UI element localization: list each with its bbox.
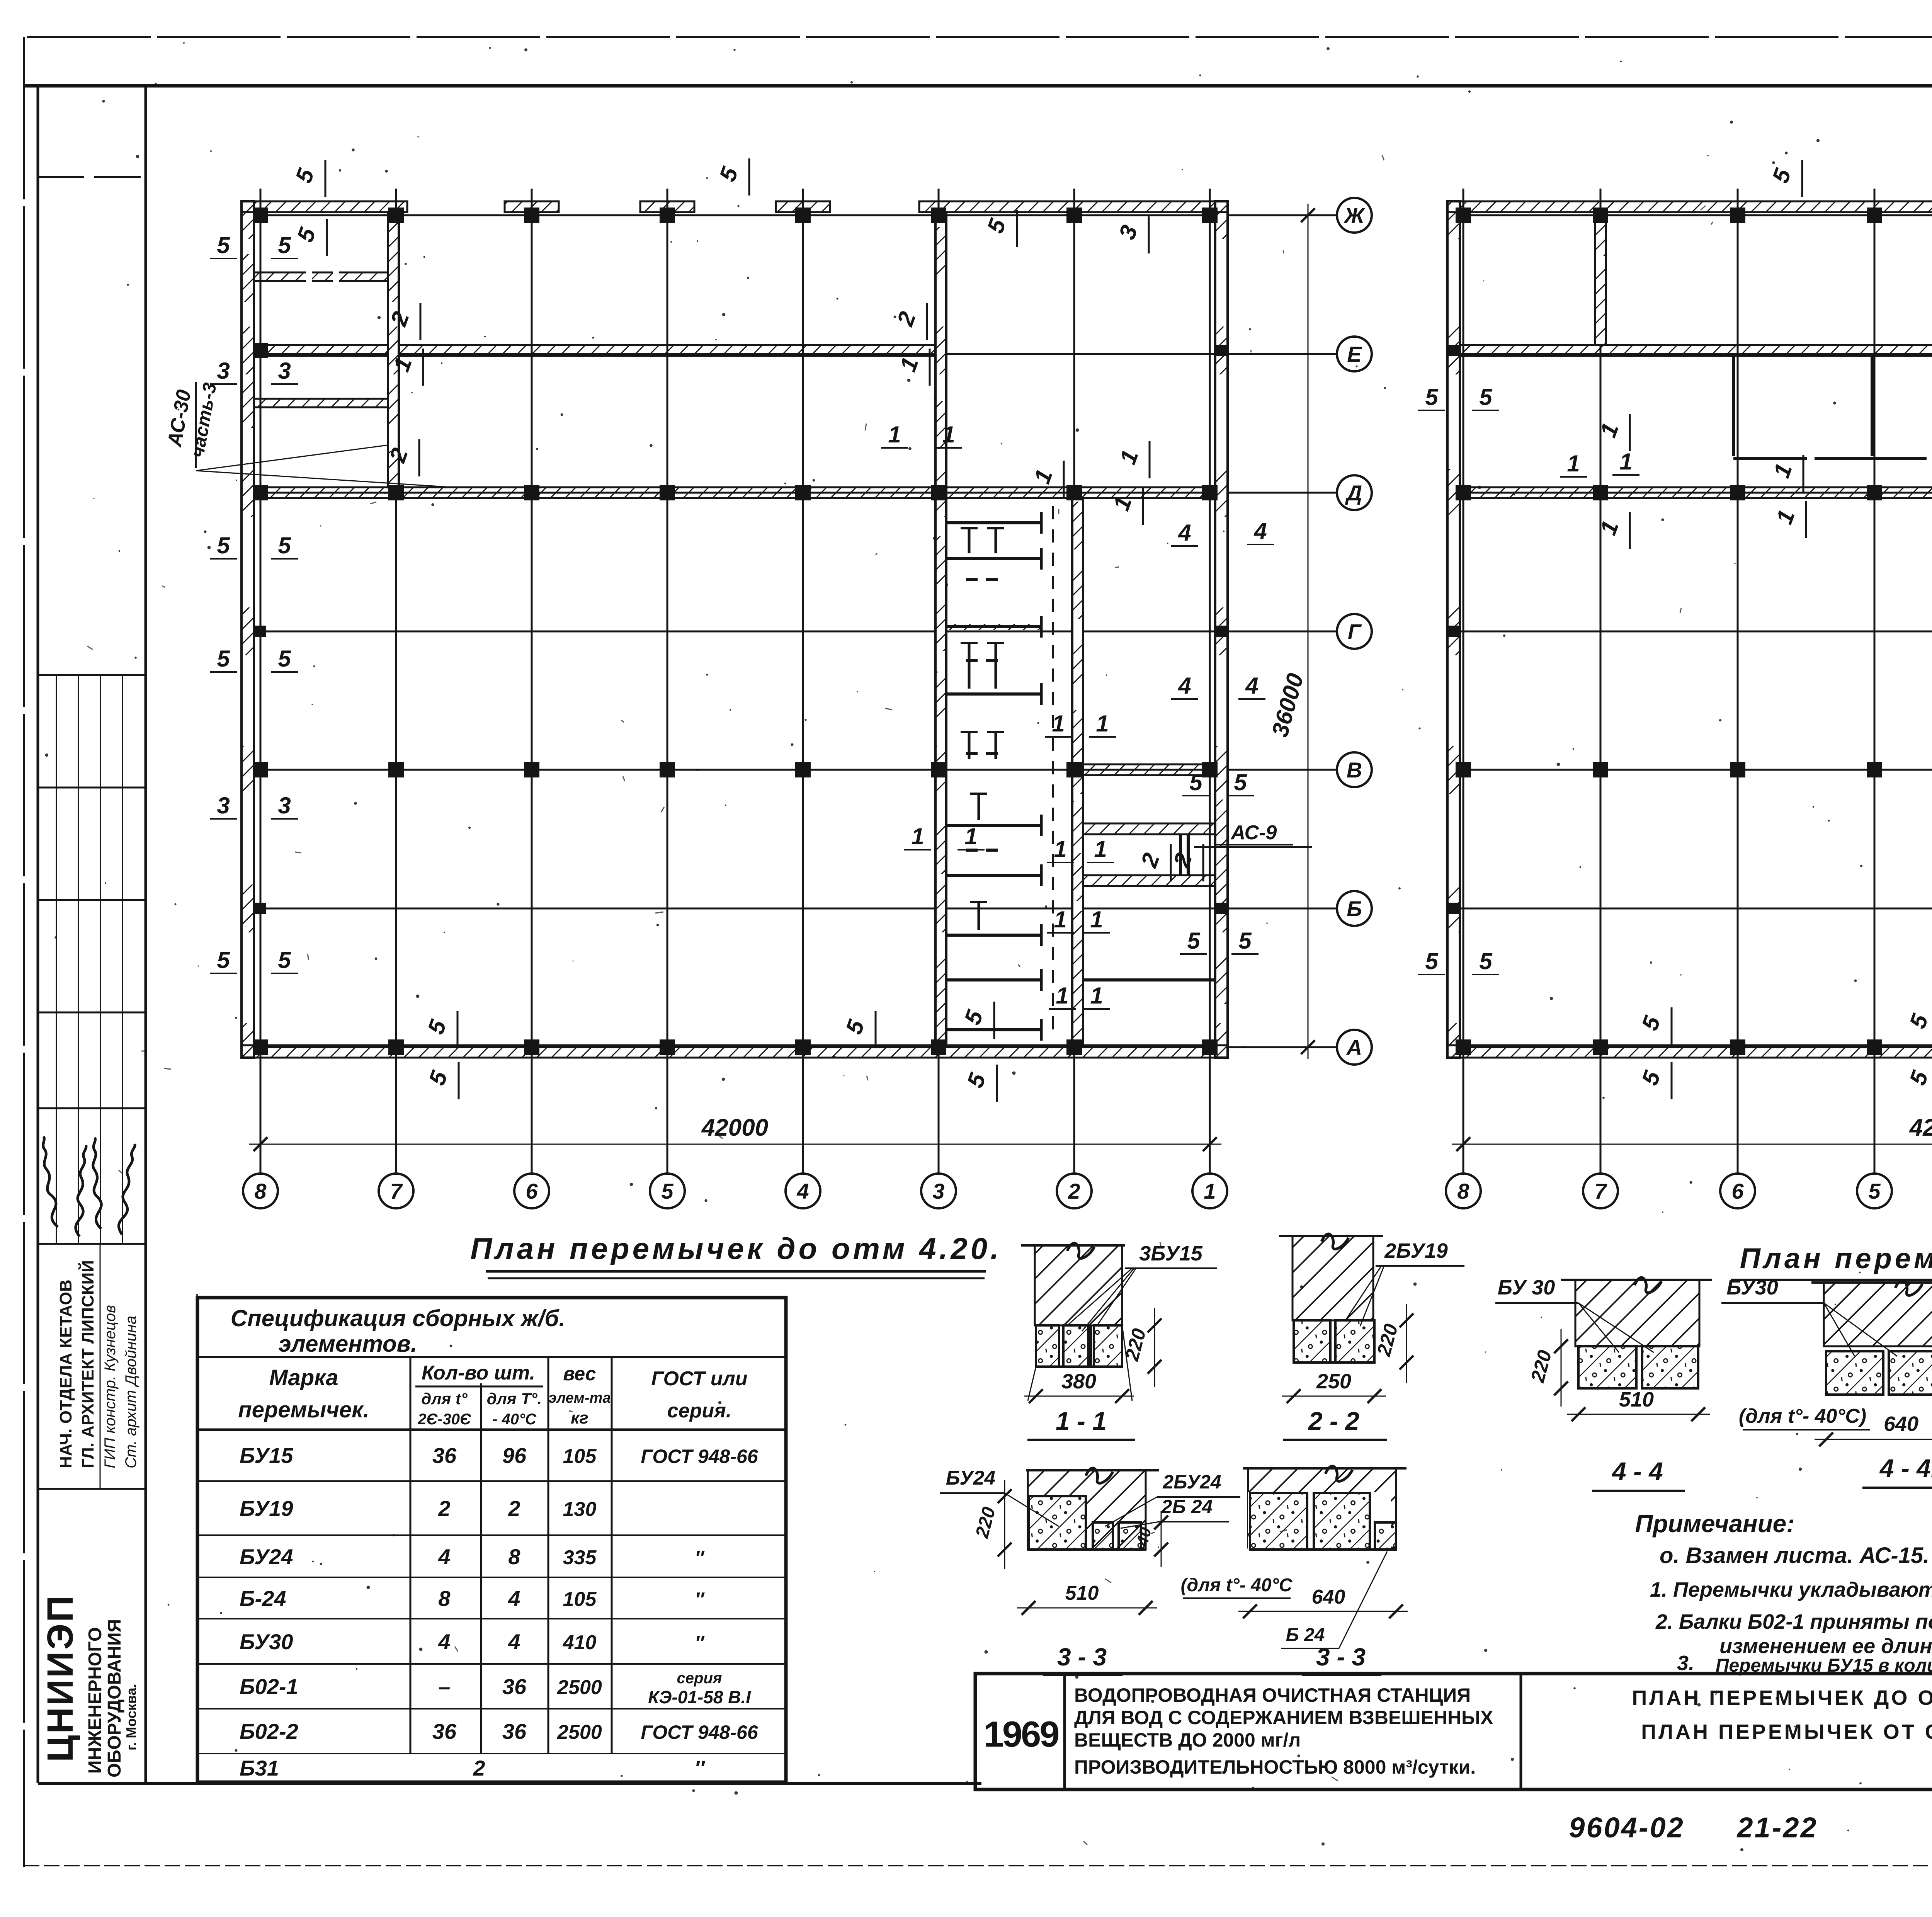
svg-text:4: 4 bbox=[508, 1630, 520, 1654]
plan 2 left wall bbox=[1447, 201, 1460, 1058]
svg-text:4: 4 bbox=[1178, 673, 1191, 699]
svg-text:ПЛАН ПЕРЕМЫЧЕК ДО ОТМ. 4.20: ПЛАН ПЕРЕМЫЧЕК ДО ОТМ. 4.200 . bbox=[1632, 1686, 1932, 1709]
plan 2 wall on axis D bbox=[1460, 487, 1932, 498]
svg-text:96: 96 bbox=[502, 1443, 527, 1468]
svg-text:БУ30: БУ30 bbox=[1726, 1276, 1778, 1299]
svg-text:6: 6 bbox=[1731, 1179, 1744, 1203]
svg-text:2 - 2: 2 - 2 bbox=[1308, 1407, 1359, 1435]
plan 2 dimension 42000 bbox=[1452, 1144, 1932, 1145]
svg-text:3: 3 bbox=[278, 793, 291, 818]
svg-text:2Є-30Є: 2Є-30Є bbox=[417, 1411, 471, 1428]
plan 1 wall on axis 3 bbox=[935, 212, 946, 1045]
plan 1 right block corridor wall 2 bbox=[1083, 875, 1215, 886]
svg-text:″: ″ bbox=[695, 1589, 705, 1610]
svg-text:2: 2 bbox=[1068, 1179, 1080, 1203]
svg-text:42000: 42000 bbox=[1909, 1114, 1932, 1141]
svg-text:ГОСТ 948-66: ГОСТ 948-66 bbox=[641, 1721, 758, 1743]
plan 1 wall columns rows Е Г Б bbox=[253, 343, 1227, 914]
svg-text:ОБОРУДОВАНИЯ: ОБОРУДОВАНИЯ bbox=[104, 1619, 125, 1778]
svg-text:План перемычек до отм 4.20.: План перемычек до отм 4.20. bbox=[470, 1232, 1002, 1266]
svg-text:5: 5 bbox=[1479, 948, 1493, 974]
plan 1 bottom wall bbox=[241, 1045, 1228, 1058]
svg-text:для t°: для t° bbox=[421, 1390, 468, 1408]
svg-text:4: 4 bbox=[1253, 518, 1267, 544]
svg-text:36: 36 bbox=[502, 1719, 527, 1744]
stamp cell line top bbox=[38, 176, 146, 178]
svg-text:для Т°.: для Т°. bbox=[487, 1390, 542, 1408]
svg-text:335: 335 bbox=[563, 1546, 597, 1569]
svg-text:5: 5 bbox=[278, 532, 291, 558]
stamp column right border bbox=[145, 86, 147, 1783]
svg-text:36: 36 bbox=[432, 1719, 457, 1744]
svg-text:640: 640 bbox=[1884, 1412, 1918, 1436]
svg-text:4: 4 bbox=[508, 1586, 520, 1611]
svg-text:ПЛАН ПЕРЕМЫЧЕК ОТ ОТМ. 4.2: ПЛАН ПЕРЕМЫЧЕК ОТ ОТМ. 4.200 bbox=[1641, 1720, 1932, 1744]
svg-text:510: 510 bbox=[1619, 1388, 1654, 1411]
spec table rows bbox=[197, 1480, 786, 1482]
svg-text:вес: вес bbox=[563, 1363, 596, 1385]
svg-text:БУ19: БУ19 bbox=[240, 1496, 293, 1521]
plan 1 top wall stub axis 6 bbox=[505, 201, 559, 212]
svg-text:1: 1 bbox=[1056, 983, 1068, 1009]
svg-text:1 - 1: 1 - 1 bbox=[1056, 1407, 1107, 1435]
svg-text:2. Балки Б02-1 приняты п: 2. Балки Б02-1 приняты по серии КЭ-01-58… bbox=[1655, 1610, 1932, 1633]
plan 1 dimension 36000 bbox=[1308, 204, 1309, 1059]
svg-text:4: 4 bbox=[796, 1179, 809, 1203]
section 2-2 bbox=[1279, 1235, 1383, 1237]
plan 1 top wall right segment bbox=[919, 201, 1228, 212]
plan 1 left wall bbox=[241, 201, 254, 1058]
section 1-1 bbox=[1021, 1244, 1125, 1247]
svg-text:НАЧ. ОТДЕЛА КЕТАОВ: НАЧ. ОТДЕЛА КЕТАОВ bbox=[56, 1279, 75, 1468]
section 3-3 second dim 640 bbox=[1238, 1611, 1408, 1612]
svg-text:5: 5 bbox=[1868, 1179, 1881, 1203]
plan 1 right block cell partitions bbox=[1179, 834, 1182, 875]
svg-text:Б 24: Б 24 bbox=[1286, 1625, 1325, 1645]
svg-text:5: 5 bbox=[1187, 928, 1201, 954]
sheet bottom edge bbox=[24, 1865, 1932, 1866]
svg-text:Б-24: Б-24 bbox=[240, 1586, 286, 1611]
svg-text:Б31: Б31 bbox=[240, 1756, 279, 1780]
plan 1 top wall stub axis 5 bbox=[640, 201, 694, 212]
svg-text:Примечание:: Примечание: bbox=[1635, 1510, 1794, 1538]
svg-text:Б02-2: Б02-2 bbox=[240, 1719, 298, 1744]
plan 1 wall on axis E bbox=[254, 345, 941, 356]
svg-text:105: 105 bbox=[563, 1588, 597, 1611]
svg-text:1: 1 bbox=[1204, 1179, 1216, 1203]
plan 2 axis circles bottom 8-1 bbox=[1446, 1174, 1481, 1208]
svg-text:серия.: серия. bbox=[667, 1400, 731, 1422]
svg-text:Кол-во шт.: Кол-во шт. bbox=[422, 1362, 535, 1384]
plan 1 stair shaft partitions between axes 3 and 2 bbox=[947, 512, 1041, 1041]
svg-text:2Б 24: 2Б 24 bbox=[1161, 1496, 1213, 1517]
svg-text:″: ″ bbox=[694, 1756, 706, 1780]
svg-text:1: 1 bbox=[1054, 907, 1066, 932]
plan 1 columns row Д bbox=[253, 485, 1218, 500]
plan 2 grid horizontal axis lines bbox=[1460, 215, 1932, 1047]
svg-text:510: 510 bbox=[1065, 1582, 1099, 1604]
plan 1 rotated section marks bbox=[291, 158, 1203, 1102]
section 4-4 second bbox=[1811, 1281, 1932, 1284]
svg-text:5: 5 bbox=[1425, 948, 1439, 974]
plan 1 columns row В bbox=[253, 762, 1218, 777]
svg-text:4: 4 bbox=[438, 1630, 450, 1654]
plan 1 right block wall on axis В bbox=[1083, 764, 1215, 775]
frame bottom heavy line bbox=[38, 1782, 981, 1785]
inner frame top line bbox=[24, 84, 1932, 88]
svg-text:2: 2 bbox=[438, 1496, 450, 1521]
svg-text:42000: 42000 bbox=[701, 1114, 768, 1141]
section 3-3 second bbox=[1243, 1467, 1406, 1470]
svg-text:1: 1 bbox=[1052, 711, 1065, 737]
svg-text:5: 5 bbox=[661, 1179, 673, 1203]
svg-text:5: 5 bbox=[217, 532, 230, 558]
svg-text:1: 1 bbox=[1094, 836, 1107, 862]
svg-text:кг: кг bbox=[571, 1408, 588, 1427]
section 1-1 dim 220 bbox=[1154, 1308, 1155, 1387]
plan 1 wall on axis 2 bbox=[1072, 498, 1083, 1045]
svg-text:ГЛ. АРХИТЕКТ ЛИПСКИЙ: ГЛ. АРХИТЕКТ ЛИПСКИЙ bbox=[78, 1260, 97, 1468]
plan 1 right block thin partition bbox=[1083, 978, 1215, 981]
svg-text:2: 2 bbox=[508, 1496, 520, 1521]
svg-text:АС-9: АС-9 bbox=[1230, 822, 1277, 844]
svg-text:1: 1 bbox=[1090, 983, 1103, 1009]
svg-text:1: 1 bbox=[911, 823, 924, 849]
sheet left edge bbox=[23, 37, 25, 1867]
svg-text:5: 5 bbox=[278, 232, 291, 258]
plan 1 top wall stub axis 4 bbox=[776, 201, 830, 212]
plan 1 top wall left block segment bbox=[241, 201, 407, 212]
svg-text:1: 1 bbox=[1619, 449, 1632, 475]
plan 2 wall columns rows Е Г Б bbox=[1448, 345, 1932, 914]
svg-text:″: ″ bbox=[695, 1632, 705, 1653]
svg-text:Б: Б bbox=[1347, 896, 1362, 921]
plan 2 top wall bbox=[1447, 201, 1932, 212]
section 4-4 second dim 640 bbox=[1815, 1439, 1932, 1440]
svg-text:4: 4 bbox=[1245, 673, 1258, 699]
svg-text:Спецификация сборных ж/б.: Спецификация сборных ж/б. bbox=[231, 1305, 565, 1331]
plan 2 columns row Д bbox=[1456, 485, 1932, 500]
svg-text:1: 1 bbox=[964, 823, 977, 849]
svg-text:серия: серия bbox=[677, 1670, 722, 1687]
svg-text:1: 1 bbox=[1054, 836, 1066, 862]
svg-text:Б02-1: Б02-1 bbox=[240, 1674, 298, 1699]
plan 1 top-left block partition 1 bbox=[254, 272, 388, 281]
svg-text:36: 36 bbox=[502, 1674, 527, 1699]
plan 1 dimension 42000 bbox=[249, 1144, 1221, 1145]
svg-text:ЦНИИЭП: ЦНИИЭП bbox=[40, 1594, 81, 1762]
plan 2 columns row Ж bbox=[1456, 208, 1932, 223]
stamp column left border bbox=[37, 86, 39, 1783]
svg-text:о. Взамен листа. АС-15.: о. Взамен листа. АС-15. bbox=[1660, 1543, 1929, 1568]
svg-text:ИНЖЕНЕРНОГО: ИНЖЕНЕРНОГО bbox=[85, 1627, 105, 1774]
svg-text:105: 105 bbox=[563, 1445, 597, 1468]
section 1-1 dim 380 bbox=[1028, 1367, 1036, 1401]
stamp revision table bbox=[38, 675, 146, 1244]
section 3-3 first bbox=[1026, 1469, 1159, 1471]
plan 2 wall on axis 7 top bbox=[1595, 212, 1606, 345]
plan 2 wall on axis E bbox=[1460, 345, 1932, 356]
svg-text:380: 380 bbox=[1061, 1370, 1096, 1393]
svg-text:3: 3 bbox=[278, 358, 291, 384]
svg-text:1: 1 bbox=[942, 422, 955, 447]
svg-text:2500: 2500 bbox=[557, 1676, 602, 1699]
svg-text:1. Перемычки укладываются на: 1. Перемычки укладываются на свежеуложен… bbox=[1650, 1578, 1932, 1601]
svg-text:4 - 4.: 4 - 4. bbox=[1879, 1454, 1932, 1482]
svg-text:7: 7 bbox=[1594, 1179, 1607, 1203]
svg-text:5: 5 bbox=[1238, 928, 1252, 954]
plan 1 shaft vertical stubs bbox=[961, 528, 1004, 930]
stamp signatures bbox=[36, 1136, 66, 1227]
plan 1 columns row А bbox=[253, 1039, 1218, 1055]
section 4-4 first bbox=[1561, 1279, 1712, 1281]
svg-text:(для t°- 40°С: (для t°- 40°С bbox=[1181, 1575, 1293, 1596]
svg-text:5: 5 bbox=[1425, 384, 1439, 410]
svg-text:КЭ-01-58 В.I: КЭ-01-58 В.I bbox=[648, 1687, 751, 1707]
svg-text:2: 2 bbox=[473, 1756, 485, 1780]
plan 1 grid vertical axis lines bbox=[260, 189, 1210, 1172]
plan 2 labels bbox=[1418, 246, 1932, 975]
svg-text:2БУ19: 2БУ19 bbox=[1384, 1239, 1448, 1262]
svg-text:5: 5 bbox=[278, 947, 291, 973]
specification table frame bbox=[197, 1298, 786, 1782]
svg-text:5: 5 bbox=[1479, 384, 1493, 410]
svg-text:Г: Г bbox=[1348, 619, 1362, 644]
svg-text:В: В bbox=[1347, 758, 1362, 782]
svg-text:БУ24: БУ24 bbox=[946, 1467, 996, 1489]
svg-text:Марка: Марка bbox=[269, 1365, 338, 1390]
plan 2 columns row В bbox=[1456, 762, 1932, 777]
svg-text:640: 640 bbox=[1312, 1586, 1345, 1608]
plan 1 axis circles bottom 8-1 bbox=[243, 1174, 278, 1208]
svg-text:Е: Е bbox=[1347, 342, 1362, 366]
svg-text:3 - 3: 3 - 3 bbox=[1057, 1643, 1107, 1671]
svg-text:ГОСТ или: ГОСТ или bbox=[651, 1368, 747, 1390]
title block dividers bbox=[1063, 1674, 1066, 1789]
svg-text:ПРОИЗВОДИТЕЛЬНОСТЬЮ 8000 м³/су: ПРОИЗВОДИТЕЛЬНОСТЬЮ 8000 м³/сутки. bbox=[1074, 1756, 1476, 1778]
svg-text:Д: Д bbox=[1345, 481, 1362, 505]
svg-text:7: 7 bbox=[390, 1179, 403, 1203]
svg-text:8: 8 bbox=[254, 1179, 267, 1203]
svg-text:5: 5 bbox=[1189, 769, 1203, 795]
svg-text:БУ24: БУ24 bbox=[240, 1544, 293, 1569]
plan 2 columns row А bbox=[1456, 1039, 1932, 1055]
svg-text:1: 1 bbox=[1090, 907, 1103, 932]
svg-text:5: 5 bbox=[217, 232, 230, 258]
section 3-3 first dim 510 bbox=[1017, 1607, 1157, 1609]
section 3-3 first dim 40 bbox=[1161, 1511, 1162, 1567]
svg-text:8: 8 bbox=[438, 1586, 451, 1611]
svg-text:130: 130 bbox=[563, 1498, 597, 1521]
plan 1 labels bbox=[210, 232, 1274, 1009]
plan 1 right block corridor wall 1 bbox=[1083, 823, 1215, 834]
section 3-3 first dim 220 bbox=[1004, 1480, 1005, 1569]
svg-text:5: 5 bbox=[1234, 769, 1247, 795]
svg-text:3БУ15: 3БУ15 bbox=[1139, 1242, 1203, 1265]
section 4-4 first dim 220 bbox=[1561, 1329, 1562, 1407]
svg-text:4: 4 bbox=[1178, 520, 1191, 546]
svg-text:А: А bbox=[1346, 1035, 1362, 1060]
svg-text:- 40°С: - 40°С bbox=[492, 1411, 537, 1428]
svg-text:1: 1 bbox=[1567, 451, 1580, 476]
svg-text:–: – bbox=[438, 1674, 450, 1699]
svg-text:3: 3 bbox=[217, 793, 230, 818]
svg-text:″: ″ bbox=[695, 1547, 705, 1568]
svg-text:Ж: Ж bbox=[1343, 203, 1366, 228]
plan 2 bottom wall bbox=[1447, 1045, 1932, 1058]
svg-text:5: 5 bbox=[217, 646, 230, 672]
svg-text:8: 8 bbox=[508, 1544, 520, 1569]
plan 1 wall on axis D bbox=[254, 487, 1215, 498]
svg-text:БУ 30: БУ 30 bbox=[1498, 1276, 1555, 1299]
svg-text:8: 8 bbox=[1457, 1179, 1469, 1203]
svg-text:ВОДОПРОВОДНАЯ ОЧИСТНАЯ СТАНЦИЯ: ВОДОПРОВОДНАЯ ОЧИСТНАЯ СТАНЦИЯ bbox=[1074, 1684, 1471, 1706]
svg-text:ВЕЩЕСТВ ДО 2000 мг/л: ВЕЩЕСТВ ДО 2000 мг/л bbox=[1074, 1729, 1301, 1751]
svg-text:г. Москва.: г. Москва. bbox=[123, 1684, 139, 1750]
section 4-4 first dim 510 bbox=[1567, 1414, 1710, 1415]
svg-text:ДЛЯ ВОД С СОДЕРЖАНИЕМ ВЗВЕШЕНН: ДЛЯ ВОД С СОДЕРЖАНИЕМ ВЗВЕШЕННЫХ bbox=[1074, 1707, 1493, 1728]
plan 1 grid horizontal axis lines bbox=[254, 215, 1336, 1047]
svg-text:2500: 2500 bbox=[557, 1721, 602, 1744]
svg-text:Ст. архит Двойнина: Ст. архит Двойнина bbox=[122, 1316, 139, 1468]
plan 1 shaft dashed stubs bbox=[966, 580, 1005, 850]
svg-text:3: 3 bbox=[217, 358, 230, 384]
plan 2 grid vertical axis lines bbox=[1463, 189, 1932, 1172]
plan 1 top-left block partition 2 bbox=[254, 399, 388, 407]
plan 1 axis circles right letters bbox=[1337, 198, 1372, 233]
plan 1 shaft dashed line bbox=[1052, 506, 1054, 1039]
svg-text:2БУ24: 2БУ24 bbox=[1162, 1471, 1221, 1493]
svg-text:БУ30: БУ30 bbox=[240, 1630, 293, 1654]
svg-text:36: 36 bbox=[432, 1443, 457, 1468]
svg-text:(для t°- 40°С): (для t°- 40°С) bbox=[1739, 1405, 1866, 1427]
svg-text:3 - 3: 3 - 3 bbox=[1316, 1643, 1366, 1671]
svg-text:3.: 3. bbox=[1677, 1652, 1694, 1675]
svg-text:21-22: 21-22 bbox=[1736, 1812, 1818, 1844]
svg-text:План перемычек от отм. 4.2: План перемычек от отм. 4.20. bbox=[1740, 1242, 1932, 1274]
svg-text:3: 3 bbox=[932, 1179, 944, 1203]
svg-text:ГОСТ 948-66: ГОСТ 948-66 bbox=[641, 1446, 758, 1467]
spec table column lines bbox=[410, 1357, 412, 1753]
svg-text:1: 1 bbox=[888, 422, 901, 447]
svg-text:1969: 1969 bbox=[983, 1714, 1058, 1754]
plan 2 rotated section marks bbox=[1595, 158, 1932, 1099]
svg-text:9604-02: 9604-02 bbox=[1569, 1812, 1685, 1844]
svg-text:изменением ее длины до: изменением ее длины до е = 5500 мм. bbox=[1719, 1635, 1932, 1658]
svg-text:250: 250 bbox=[1316, 1370, 1351, 1393]
plan 1 columns row Ж bbox=[253, 208, 1218, 223]
sheet top edge bbox=[27, 36, 1932, 38]
svg-text:элем-та: элем-та bbox=[549, 1390, 611, 1406]
svg-text:410: 410 bbox=[563, 1631, 597, 1654]
plan 1 top-left block right wall bbox=[388, 212, 399, 487]
svg-text:4: 4 bbox=[438, 1544, 450, 1569]
svg-text:БУ15: БУ15 bbox=[240, 1443, 293, 1468]
svg-text:5: 5 bbox=[217, 947, 230, 973]
svg-text:5: 5 bbox=[278, 646, 291, 672]
plan 2 rooms below axis E bbox=[1733, 356, 1932, 458]
svg-text:перемычек.: перемычек. bbox=[238, 1397, 369, 1422]
svg-text:4 - 4: 4 - 4 bbox=[1611, 1457, 1663, 1485]
section 2-2 dim 220 bbox=[1406, 1304, 1407, 1383]
section 2-2 dim 250 bbox=[1282, 1396, 1386, 1397]
title block frame bbox=[975, 1674, 1932, 1789]
svg-text:элементов.: элементов. bbox=[278, 1331, 417, 1357]
svg-text:6: 6 bbox=[526, 1179, 538, 1203]
plan 1 right wall bbox=[1215, 201, 1228, 1058]
svg-text:ГИП констр. Кузнецов: ГИП констр. Кузнецов bbox=[102, 1305, 119, 1468]
svg-text:1: 1 bbox=[1096, 711, 1109, 737]
